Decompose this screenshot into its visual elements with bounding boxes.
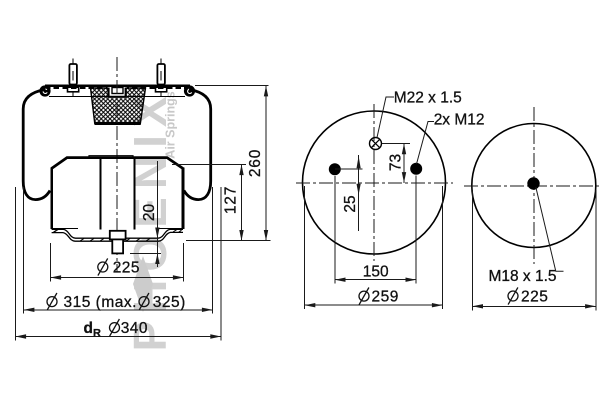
M12 dot right (410, 163, 422, 175)
piston wall right (182, 168, 185, 230)
bolt end line (130, 252, 161, 254)
bead left (39, 85, 50, 96)
piston bottom profile (51, 229, 185, 242)
svg-text:150: 150 (363, 264, 389, 281)
watermark diamond logo (133, 256, 153, 312)
svg-text:315 (max.: 315 (max. (64, 294, 137, 311)
ref line dot to 25 (335, 168, 363, 170)
middle view circle (303, 111, 446, 254)
dim dia225 text (98, 258, 140, 276)
ext lines dia225 left view (50, 243, 183, 282)
centerline left view (116, 57, 118, 272)
dim 20 (155, 161, 159, 267)
piston center tube left (99, 159, 101, 230)
ext lines dia315 (24, 187, 213, 314)
M22 label leader (377, 97, 394, 138)
right centerline horizontal (464, 185, 600, 187)
svg-text:M22 x 1.5: M22 x 1.5 (394, 89, 462, 106)
svg-text:d: d (84, 320, 93, 337)
nut left (68, 87, 79, 96)
bumper rubber hatched (91, 87, 146, 125)
dim 25 (357, 155, 361, 231)
M18 dot (527, 177, 539, 189)
dim dia225 left view (50, 275, 183, 279)
bead right (184, 85, 195, 96)
dim dia225 right (472, 304, 596, 308)
svg-text:260: 260 (247, 149, 264, 177)
M22 symbol (370, 138, 382, 150)
ext lines dia225 right (472, 190, 596, 311)
ext line top (260) (195, 85, 269, 87)
dim 150 (335, 278, 416, 282)
svg-text:M18 x 1.5: M18 x 1.5 (488, 268, 556, 285)
svg-text:20: 20 (141, 204, 158, 222)
bellows outline left (23, 90, 50, 200)
svg-text:325): 325) (153, 294, 186, 311)
middle centerline vertical (373, 104, 375, 261)
dim dia225 right text (508, 287, 548, 305)
dim dia340 (15, 334, 221, 338)
M18 leader (536, 187, 564, 271)
dim dia315 text (47, 293, 186, 311)
ext lines dia259 (305, 186, 443, 309)
bellows outline right (184, 90, 211, 200)
svg-text:225: 225 (521, 288, 548, 305)
nut right (156, 87, 167, 96)
dim dia315 (24, 308, 213, 312)
piston top hat (52, 156, 184, 169)
svg-text:2x M12: 2x M12 (434, 112, 485, 129)
piston center tube right (133, 159, 135, 230)
svg-text:127: 127 (223, 186, 240, 214)
M12 dot left (329, 163, 341, 175)
stud right (157, 59, 165, 85)
M12 label leader (417, 122, 435, 165)
ext line piston bottom (186, 240, 271, 242)
dim dia259 (305, 303, 443, 307)
dim 73 (402, 144, 406, 183)
dim dia340 text (84, 319, 149, 339)
middle centerline horizontal (296, 182, 453, 184)
dim 127 (239, 164, 243, 240)
ext lines dia340 (15, 187, 221, 341)
svg-text:Air Springs: Air Springs (164, 91, 178, 158)
svg-text:259: 259 (372, 289, 399, 306)
dim 260 (264, 86, 268, 241)
watermark PHOENIX (124, 88, 176, 351)
svg-text:73: 73 (388, 154, 405, 171)
top plate (45, 86, 190, 88)
plate bottom line (49, 96, 185, 98)
right view circle (472, 124, 596, 248)
svg-text:225: 225 (113, 259, 140, 276)
svg-text:340: 340 (121, 320, 148, 337)
piston bolt (110, 231, 126, 254)
ext lines 150 (335, 176, 416, 284)
piston wall left (50, 168, 53, 230)
dim dia259 text (359, 288, 399, 306)
ref line M22 to 73 (382, 143, 410, 145)
piston bottom hatch dashes (54, 229, 177, 241)
svg-text:25: 25 (342, 195, 359, 212)
svg-text:R: R (93, 327, 101, 339)
right centerline vertical (533, 107, 535, 264)
stud left (69, 59, 77, 85)
ext line piston top (127) (172, 163, 246, 165)
